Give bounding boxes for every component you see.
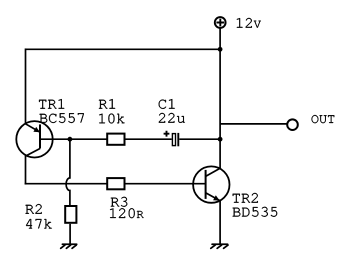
wire OUT branch xyxy=(220,123,287,125)
wire top rail xyxy=(26,48,221,50)
label R2 xyxy=(26,204,42,214)
label 12V xyxy=(237,18,261,28)
capacitor C1 plus sign xyxy=(164,131,170,137)
resistor R2 body 47k xyxy=(65,206,76,223)
node junction top rail / 12V xyxy=(218,47,223,52)
resistor R1 body 10k xyxy=(107,134,124,145)
wire R2 branch vertical with hop over lower rail xyxy=(66,139,70,205)
wire base junction to R1 and C1 xyxy=(70,138,172,140)
label 10k xyxy=(99,114,124,124)
transistor TR1 emitter arrow xyxy=(33,127,40,132)
transistor TR2 collector line xyxy=(206,168,221,176)
transistor TR1 BC557 circle xyxy=(16,121,52,157)
label 22u xyxy=(159,113,185,123)
label 47k xyxy=(26,219,52,228)
transistor TR2 base bar xyxy=(205,170,207,199)
wire left rail lower (TR1 collector down) xyxy=(25,155,27,184)
label C1 xyxy=(159,99,175,109)
wire C1 to main vertical xyxy=(179,138,220,140)
capacitor C1 negative plate (bar) xyxy=(177,133,179,146)
transistor TR2 emitter line xyxy=(206,193,221,201)
label BD535 xyxy=(233,207,278,217)
wire lower rail (TR1 collector to TR2 base) xyxy=(25,183,206,185)
resistor R3 body 120R xyxy=(107,178,124,189)
wire left rail upper (to TR1 emitter) xyxy=(25,48,27,123)
label TR2 xyxy=(233,193,258,203)
wire TR1 base lead to junction xyxy=(40,138,70,140)
capacitor C1 positive plate (box) xyxy=(172,134,175,146)
transistor TR2 emitter arrow xyxy=(213,195,220,200)
supply terminal circle +12V xyxy=(215,17,226,28)
label OUT xyxy=(312,115,335,123)
wire main vertical rail xyxy=(219,49,221,168)
transistor TR1 emitter line xyxy=(26,124,41,132)
terminal OUT circle xyxy=(287,119,298,130)
node junction C1 / vertical rail xyxy=(218,137,223,142)
label R3 xyxy=(111,197,127,207)
supply plus sign xyxy=(216,19,224,27)
wire 12V stem xyxy=(219,28,221,49)
label BC557 xyxy=(40,113,84,123)
wire TR2 emitter to ground xyxy=(219,200,221,244)
label TR1 xyxy=(39,99,64,109)
label R1 xyxy=(99,99,115,109)
ground symbol under R2 xyxy=(61,244,77,248)
node junction base/R1/R2 xyxy=(68,137,73,142)
transistor TR1 collector line xyxy=(26,149,41,157)
ground symbol under TR2 xyxy=(211,244,228,248)
transistor TR1 base bar xyxy=(39,124,41,148)
wire R2 to ground xyxy=(69,224,71,244)
label 120R xyxy=(110,208,144,218)
transistor TR2 BD535 circle xyxy=(193,166,229,202)
